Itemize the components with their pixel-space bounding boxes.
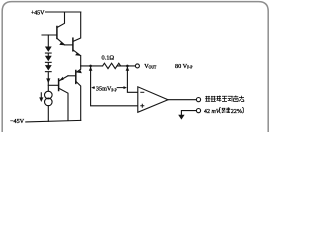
transistor Q2 base bar: [72, 38, 74, 51]
svg-text:VOUT: VOUT: [144, 63, 157, 70]
wire Q1 collector drop: [58, 12, 65, 27]
wire reference terminal to ground: [181, 111, 196, 115]
wire op-amp output: [168, 99, 196, 101]
paren left: [220, 107, 221, 113]
label error 22% chinese: [220, 107, 244, 113]
wire Q3 collector to rail: [59, 89, 68, 121]
wire resistor to Vout terminal: [117, 65, 135, 67]
transistor Q4 base bar: [75, 71, 77, 84]
wire Q1 base: [42, 34, 57, 36]
wire Q1 emitter to Q2 base: [65, 44, 73, 46]
transistor Q3 emitter: [59, 76, 68, 81]
wire current source to rail: [47, 106, 49, 122]
transistor Q1 emitter: [58, 39, 65, 45]
wire Q3 base: [48, 84, 58, 86]
wire D3 to current source: [47, 72, 49, 91]
terminal measured output circle: [196, 98, 200, 102]
arrow dim left: [91, 86, 94, 89]
transistor Q3 base bar: [58, 79, 60, 91]
op-amp U1: [138, 87, 168, 113]
transistor Q1 base bar: [56, 27, 58, 39]
junction dot left sense tap: [89, 65, 92, 68]
arrow Q3 emitter head (PNP into bar): [59, 77, 64, 81]
svg-text:+45V: +45V: [31, 10, 45, 16]
char ce: [211, 96, 216, 102]
diode D2: [45, 56, 52, 61]
wire Q2 emitter to output node: [80, 56, 82, 66]
junction dot right sense tap: [126, 65, 129, 68]
wire output node to resistor: [81, 65, 103, 67]
svg-text:35mVP-P: 35mVP-P: [96, 86, 117, 93]
arrow Q1 emitter head: [59, 42, 65, 45]
wire sense line left: [91, 66, 138, 105]
transistor Q2 emitter: [74, 50, 81, 55]
wire dim arrow left stem: [93, 87, 95, 89]
svg-text:22%: 22%: [231, 109, 242, 115]
char ya: [222, 96, 227, 101]
wire between diodes D1-D2: [47, 54, 49, 56]
char da: [239, 96, 244, 102]
wire Q4 emitter from output node: [77, 66, 81, 72]
char ke: [228, 96, 233, 101]
ground arrow: [178, 115, 184, 120]
arrow sense right up: [126, 67, 130, 71]
node -45V rail: [26, 120, 81, 122]
terminal reference circle: [196, 109, 200, 113]
node +45V rail: [46, 11, 81, 13]
arrow Q4 emitter head (PNP into bar): [76, 70, 82, 73]
resistor R 0.1ohm zigzag: [103, 63, 121, 68]
wire between diodes D2-D3: [47, 63, 49, 65]
char cha: [226, 107, 230, 112]
current source I1 circle upper: [45, 91, 53, 99]
arrow Q2 emitter head: [75, 53, 81, 56]
wire Q2 collector: [74, 12, 81, 41]
arrow dim right: [124, 86, 127, 89]
border frame: [2, 2, 268, 133]
diode D3: [45, 65, 52, 70]
svg-text:80 VP-P: 80 VP-P: [175, 63, 192, 70]
char gao: [233, 96, 238, 102]
char bei: [205, 96, 210, 102]
arrow current direction beside source: [39, 97, 43, 102]
current source I1 circle lower: [45, 98, 53, 106]
char wu: [222, 108, 226, 113]
wire current direction arrow stem: [40, 93, 42, 98]
wire Q4 collector to rail: [76, 82, 80, 121]
arrow current into source: [46, 78, 50, 83]
terminal Vout circle: [135, 64, 139, 68]
arrow sense left up: [89, 67, 93, 71]
op-amp minus sign: [140, 91, 144, 93]
diode D1: [45, 47, 52, 52]
paren right: [242, 107, 243, 113]
svg-text:42 mV: 42 mV: [204, 109, 221, 115]
wire sense line right: [127, 66, 137, 92]
wire bias chain top: [47, 35, 49, 47]
op-amp plus sign: [140, 104, 144, 108]
svg-text:−45V: −45V: [10, 118, 25, 125]
svg-text:0.1Ω: 0.1Ω: [102, 55, 115, 62]
char dian: [217, 96, 222, 102]
wire Q4 base: [68, 75, 75, 77]
wire dim arrow right stem: [117, 87, 125, 89]
label measured voltage chinese line1 "被测电压可高达": [205, 96, 244, 102]
